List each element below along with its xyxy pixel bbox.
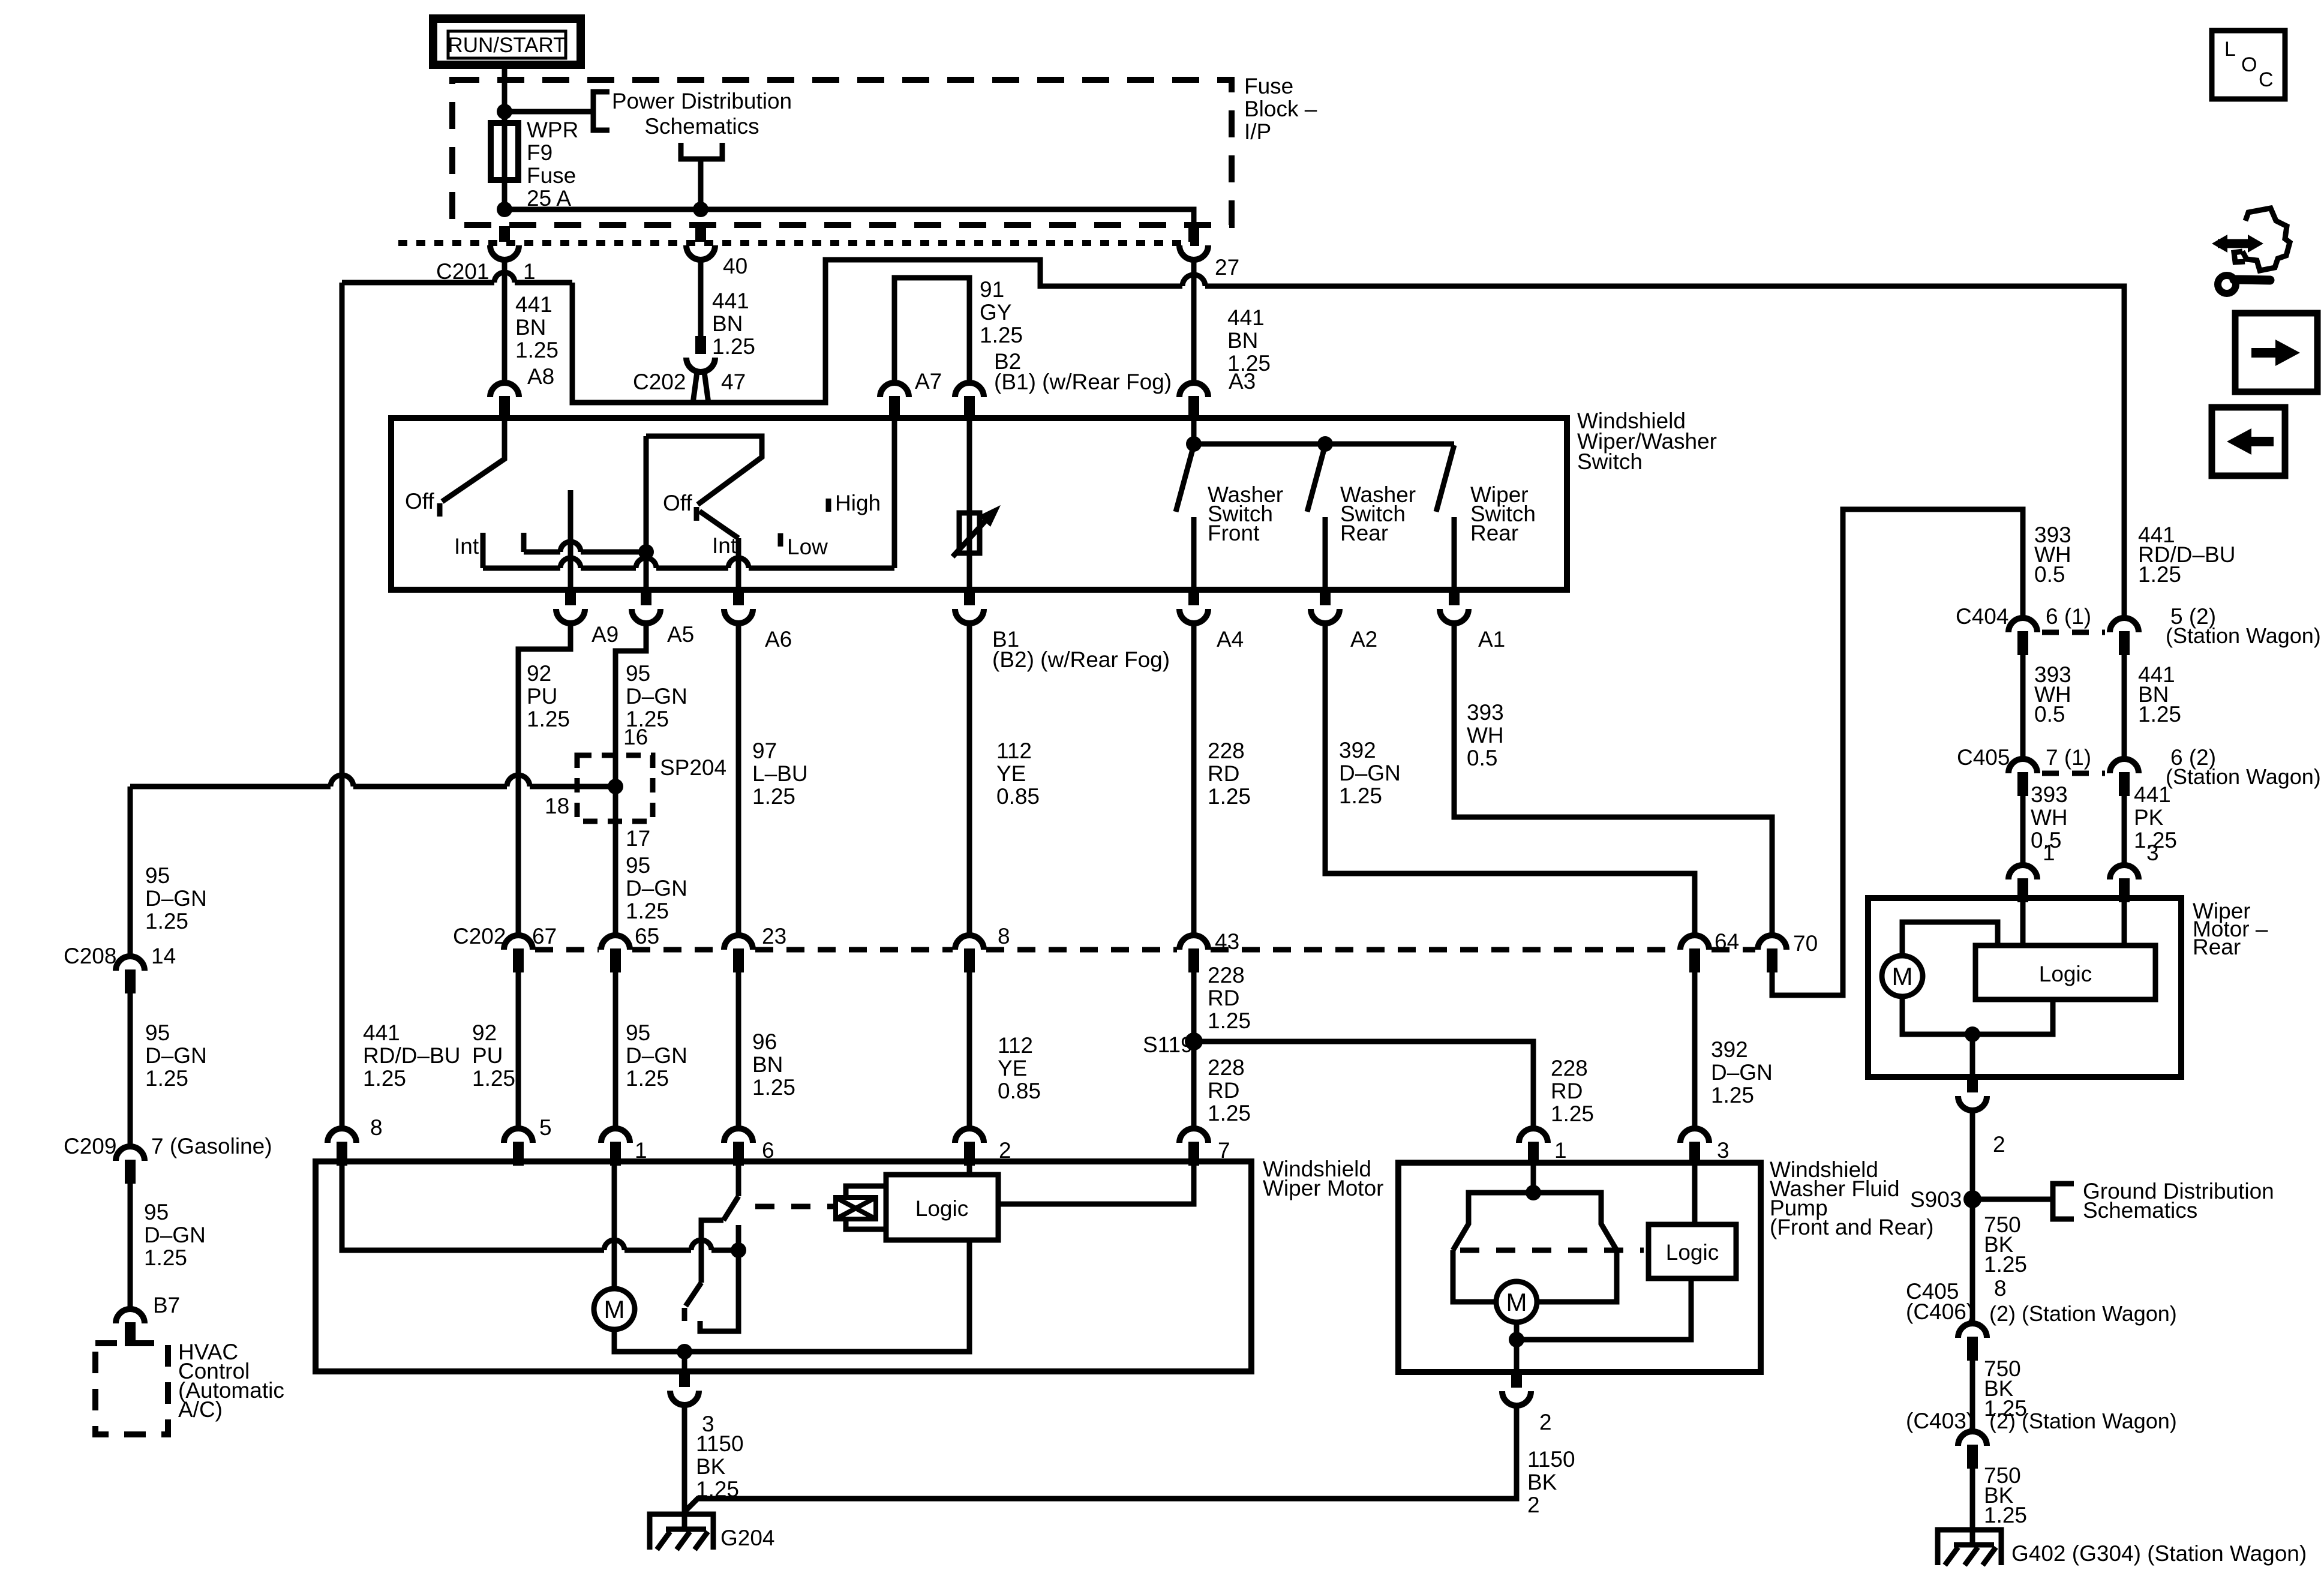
wire pin 1 to motor M [612,1164,617,1289]
wire 441 rail upper (hops over pin1 wire) [342,280,572,286]
wire 441 BN from pin 40 to C202-47 [698,260,704,336]
switch 2 High contact [826,499,831,512]
connector A8 [490,383,519,420]
svg-text:Logic: Logic [1666,1240,1719,1265]
motor M (pump) [1496,1281,1537,1322]
svg-text:3: 3 [1717,1138,1730,1163]
wire pin 8 to internal bus (hops pin1 and park wires) [342,1164,738,1250]
svg-text:393: 393 [2031,782,2068,807]
svg-text:1.25: 1.25 [752,784,795,809]
junction SP204 [608,779,623,794]
svg-text:A5: A5 [667,622,694,647]
label 441 BN 1.25 (pin 1) [515,292,559,362]
svg-text:Logic: Logic [915,1196,968,1221]
wire line B Int bus to A7 leg (hops A9,A5,A6 wires) [483,566,894,571]
wire to Power Distribution bracket [505,109,593,115]
wire rear M top to logic [1902,922,1998,956]
svg-text:70: 70 [1793,931,1818,956]
svg-text:40: 40 [723,254,747,278]
svg-text:D–GN: D–GN [626,1043,687,1068]
svg-text:(Station Wagon): (Station Wagon) [2166,623,2321,648]
svg-text:7 (1): 7 (1) [2046,745,2091,770]
wire 393 WH from C202-70 to C404 [1772,509,2023,995]
svg-text:C404: C404 [1956,604,2008,629]
connector A9 [556,590,585,623]
connector motor pin 3 [670,1371,699,1405]
label Fuse Block - I/P [1244,74,1317,144]
wire pump pin 2 drop [1514,1340,1520,1372]
svg-text:228: 228 [1208,1055,1245,1080]
pump switch left arm [1453,1193,1533,1302]
park switch blade upper [723,1196,738,1220]
svg-text:2: 2 [1993,1132,2005,1157]
wire hop bus over park contact wire [691,1240,711,1250]
washer switch rear blade [1307,445,1325,512]
svg-text:A7: A7 [915,369,942,394]
splice S903 [1963,1190,1981,1208]
svg-text:Off: Off [405,489,434,514]
connector C209 pin 7 [116,1146,145,1184]
wire M bottom to logic bottom [614,1240,969,1352]
wire pin 3 drop [682,1352,687,1371]
svg-text:95: 95 [145,863,170,888]
wire 228 RD branch S119 to pump pin 1 [1194,1041,1533,1128]
wire 1150 BK pump to G204 [685,1406,1517,1511]
svg-text:C202: C202 [633,370,686,394]
wire rear M bottom to logic bottom [1902,996,2053,1034]
svg-text:D–GN: D–GN [626,876,687,900]
motor M (front) [594,1289,635,1329]
wire 750 BK C403 to G402 [1970,1469,1975,1530]
connector B7 [116,1309,145,1346]
svg-text:1.25: 1.25 [144,1245,187,1270]
switch 2 left leg (A5) [644,436,649,590]
svg-text:1.25: 1.25 [1551,1101,1594,1126]
svg-text:1.25: 1.25 [1208,784,1251,809]
svg-text:1.25: 1.25 [145,1066,188,1091]
svg-text:8: 8 [998,924,1010,948]
svg-text:1150: 1150 [1527,1447,1575,1472]
svg-text:C208: C208 [64,944,116,968]
svg-text:Rear: Rear [1340,521,1388,545]
logic box (front motor) [886,1175,998,1240]
wire 393 WH from A1 to C202-70 [1454,623,1772,935]
junction below fuse [497,202,512,217]
connector A6 [724,590,753,623]
svg-text:A2: A2 [1350,627,1377,652]
svg-text:PU: PU [472,1043,503,1068]
switch 2 Low contact [778,533,783,547]
svg-text:8: 8 [1994,1276,2007,1301]
wire 228 RD below C202-43 with splice S119 [1191,972,1197,1128]
svg-text:16: 16 [623,725,648,749]
svg-text:PU: PU [527,684,557,709]
connector A3 [1179,383,1208,420]
wire 95 D-GN C208 to C209 [128,993,133,1146]
connector B2 [955,383,984,420]
junction washer switch rear [1317,436,1333,452]
connector motor pin 1 [601,1128,630,1166]
wire pump pin 3 to logic top [1692,1164,1698,1224]
windshield wiper motor box [316,1161,1251,1371]
svg-text:1: 1 [1554,1138,1567,1163]
svg-text:1.25: 1.25 [2138,562,2181,587]
connector C202 pin 23 [724,935,753,972]
wire S903 to ground distribution bracket [1972,1197,2053,1202]
svg-text:C209: C209 [64,1134,116,1158]
switch 1 Int contact [481,533,486,568]
svg-text:Off: Off [663,491,692,515]
windshield washer fluid pump box [1398,1163,1761,1372]
variable resistor (delay) [953,505,1001,557]
wire 112 YE from B1 to C202-8 [967,623,972,935]
svg-text:D–GN: D–GN [145,886,207,911]
svg-text:B7: B7 [153,1293,180,1317]
svg-text:WH: WH [2031,805,2068,830]
park switch rest stub [736,1225,741,1250]
label 441 BN 1.25 (pin 40) [712,289,755,359]
svg-text:YE: YE [996,761,1026,786]
reference bracket Power Distribution [593,92,609,130]
svg-text:392: 392 [1339,738,1376,763]
relay coil box [836,1197,876,1219]
junction pin 40 tap [693,202,708,217]
svg-text:M: M [1506,1288,1527,1316]
wiper switch rear blade [1436,445,1454,512]
wire SP204 pin 18 branch to left (hops 441 and 92 wires) [130,784,615,789]
connector C201 pin 40 [686,226,715,260]
svg-text:441: 441 [1227,305,1265,330]
svg-text:G402 (G304) (Station Wagon): G402 (G304) (Station Wagon) [2011,1541,2307,1566]
svg-text:1150: 1150 [696,1431,744,1456]
fuse F9 WPR 25A [491,112,578,211]
wire pin 7 to logic right [998,1164,1194,1204]
connector pump pin 2 [1502,1372,1531,1406]
svg-text:D–GN: D–GN [1711,1060,1773,1085]
svg-text:BN: BN [752,1052,783,1077]
wire pump M bottom to logic bottom [1517,1278,1691,1340]
connector A1 [1440,590,1469,623]
svg-text:A6: A6 [765,627,792,652]
connector C202 pin 8 [955,935,984,972]
node RUN/START [433,19,581,65]
icon arrow left box [2212,407,2285,476]
svg-text:1.25: 1.25 [363,1066,406,1091]
connector C405 pin 7 (1) [2008,759,2037,796]
svg-text:1.25: 1.25 [145,909,188,933]
svg-text:(Station Wagon): (Station Wagon) [2166,764,2321,789]
svg-text:5: 5 [539,1115,552,1140]
washer switch front contact (A4) [1191,517,1197,590]
svg-text:Logic: Logic [2039,962,2092,986]
wire 441 BN right branch to rear wiper feed [572,260,2124,618]
icon arrow right box [2235,313,2317,392]
svg-text:2: 2 [1527,1493,1540,1517]
connector C404 pin 6 (1) [2008,618,2037,655]
svg-text:23: 23 [762,924,786,948]
wire 441 RD/D-BU long left vertical to motor pin 8 [340,283,345,1128]
wire 750 BK S903 to C405 [1970,1199,1975,1323]
svg-text:(C403): (C403) [1906,1409,1974,1433]
connector motor pin 6 [724,1128,753,1166]
wire hop bus over pin 1 wire [604,1240,624,1250]
svg-text:228: 228 [1208,739,1245,763]
svg-text:C: C [2259,68,2274,91]
coil to logic bracket [846,1186,886,1229]
connector row C404 [2042,630,2105,635]
svg-text:1.25: 1.25 [515,338,559,362]
svg-text:A9: A9 [591,622,618,647]
svg-text:M: M [604,1295,625,1323]
wire 441 BN from pin 27 down to A3 [1191,260,1197,383]
park switch lower blade [686,1283,701,1306]
svg-text:18: 18 [545,794,569,818]
svg-text:S903: S903 [1910,1187,1962,1212]
svg-text:228: 228 [1551,1056,1588,1080]
connector row C405 [2042,771,2105,776]
junction line A / A5 leg [638,544,654,560]
wire fuse output bus to pin 27 [505,209,1194,226]
svg-text:393: 393 [1467,700,1504,725]
wire hop line B over A9 wire [560,558,581,568]
connector C201 pin 27 [1179,226,1208,260]
wire 1150 BK to G204 [682,1405,687,1532]
connector C202 pin 64 [1680,935,1709,972]
svg-text:3: 3 [2146,840,2159,865]
svg-text:95: 95 [626,661,650,686]
svg-text:Fuse: Fuse [527,163,576,188]
svg-text:1.25: 1.25 [1208,1008,1251,1033]
svg-text:C202: C202 [453,924,506,948]
connector rear motor pin 1 [2008,865,2037,902]
wire 92 PU from A9 to C202-67 [518,623,571,935]
svg-text:1.25: 1.25 [1208,1101,1251,1125]
svg-text:WH: WH [1467,723,1504,748]
svg-text:Rear: Rear [2193,935,2241,959]
svg-text:D–GN: D–GN [145,1043,207,1068]
wire hop over 92 PU wire [507,775,530,786]
svg-text:A4: A4 [1217,627,1244,652]
connector C202 pin 65 [601,935,630,972]
svg-text:0.85: 0.85 [996,784,1040,809]
svg-text:Front: Front [1208,521,1260,545]
junction rear motor ground tap [1965,1026,1980,1042]
svg-text:RD/D–BU: RD/D–BU [363,1043,460,1068]
switch 1 wiper Off/Int blade from A8 [442,420,505,502]
windshield wiper/washer switch box [391,418,1567,590]
svg-text:High: High [835,491,881,515]
wire 95 D-GN below C202 to motor pin 1 [613,972,618,1128]
wire 97 L-BU from A6 to C202-23 [736,623,741,935]
wire 441 BN from pin 1 down to A8 [502,260,508,383]
svg-text:67: 67 [532,924,557,948]
ground G204 [650,1510,713,1550]
wire hop line A over A9 wire [560,542,581,552]
variable resistor wire B2-B1 [967,420,972,590]
svg-text:1.25: 1.25 [527,707,570,731]
wire rear motor pin 2 drop [1970,1034,1975,1077]
junction bus / 96 BN [731,1242,746,1258]
svg-text:0.5: 0.5 [1467,746,1497,770]
svg-text:A8: A8 [527,364,554,389]
wire 392 D-GN from A2 to C202-64 [1325,623,1695,935]
label Power Distribution Schematics [612,89,792,139]
wire hop line B over A6 wire [728,558,749,568]
svg-text:S119: S119 [1143,1032,1193,1057]
junction above fuse [497,104,512,119]
wire 92 PU below C202 to motor pin 5 [516,972,521,1128]
svg-text:Int: Int [712,533,737,558]
svg-text:7 (Gasoline): 7 (Gasoline) [151,1134,272,1158]
svg-text:SP204: SP204 [660,755,726,780]
wire 441 PK C405 to rear motor pin 3 [2122,796,2127,865]
connector motor pin 8 [328,1128,356,1166]
connector C201 pin 1 [490,226,519,260]
svg-text:Wiper Motor: Wiper Motor [1263,1176,1383,1200]
svg-text:Low: Low [787,535,828,559]
svg-text:BN: BN [1227,328,1258,353]
wire 392 D-GN below C202-64 to pump pin 3 [1692,972,1698,1128]
svg-text:1.25: 1.25 [2138,702,2181,727]
wire A7 leg inside box [892,420,897,568]
connector rear motor pin 2 [1958,1077,1987,1110]
svg-text:YE: YE [998,1056,1027,1080]
connector C405 pin 6 (2) [2110,759,2139,796]
svg-text:(B1) (w/Rear Fog): (B1) (w/Rear Fog) [994,370,1172,394]
switch 2 wiper Off/Int/Low/High [646,436,762,505]
park switch lower contact tick [682,1308,687,1321]
svg-text:441: 441 [363,1020,400,1045]
switch 2 Off contact [694,507,699,521]
splice S119 [1185,1032,1203,1050]
connector motor pin 7 [1179,1128,1208,1166]
wire 228 RD from A4 to C202-43 [1191,623,1197,935]
svg-text:92: 92 [527,661,551,686]
connector row C201 dotted line [398,240,1200,246]
junction pump bail [1526,1185,1541,1200]
connector A4 [1179,590,1208,623]
svg-text:GY: GY [980,300,1011,325]
svg-text:1.25: 1.25 [752,1075,795,1100]
svg-text:1.25: 1.25 [1339,784,1382,808]
svg-text:RD: RD [1208,986,1239,1010]
svg-text:WPR: WPR [527,118,578,142]
wiper switch rear contact (A1) [1452,517,1457,590]
svg-text:43: 43 [1215,929,1239,954]
svg-text:441: 441 [2134,782,2171,807]
svg-text:M: M [1892,962,1913,990]
mechanical linkage dashes [755,1204,834,1209]
connector A7 [880,383,909,420]
switch 2 blade curve to Int [699,511,738,538]
wire 95 D-GN left branch down to C208 [128,786,133,956]
svg-text:65: 65 [635,924,659,948]
connector B1 [955,590,984,623]
svg-text:97: 97 [752,739,777,763]
svg-text:91: 91 [980,277,1004,302]
wire hop line B over A5 wire [636,558,656,568]
svg-text:Block –: Block – [1244,97,1317,121]
svg-text:1.25: 1.25 [712,334,755,359]
label Windshield Wiper/Washer Switch [1577,409,1717,474]
svg-text:RUN/START: RUN/START [448,34,566,57]
wire 95 D-GN from A5 through SP204 to C202-65 [615,623,646,935]
svg-text:1.25: 1.25 [1984,1503,2027,1527]
svg-text:95: 95 [626,1020,650,1045]
park switch wire from pin 6 [736,1164,741,1196]
svg-text:(Front and Rear): (Front and Rear) [1770,1215,1934,1239]
svg-text:RD: RD [1208,1078,1239,1103]
svg-text:RD: RD [1551,1079,1583,1103]
svg-text:95: 95 [145,1020,170,1045]
connector C202 pin 70 [1758,935,1786,972]
svg-text:F9: F9 [527,140,553,165]
svg-text:Power Distribution: Power Distribution [612,89,792,113]
svg-text:441: 441 [712,289,749,313]
wiper motor rear box [1868,898,2181,1077]
svg-text:C405: C405 [1957,745,2010,770]
svg-text:2: 2 [1539,1410,1552,1434]
svg-text:92: 92 [472,1020,497,1045]
park switch bottom bracket [700,1250,738,1331]
svg-text:14: 14 [151,944,176,968]
wires rear motor pins into logic [2023,902,2124,945]
svg-text:1.25: 1.25 [626,899,669,923]
wire hop over pin 1 wire [494,272,515,283]
motor M (rear) [1882,956,1923,996]
connector C202 pin 67 [504,935,533,972]
connector A5 [632,590,660,623]
logic box (rear motor) [1975,945,2155,999]
connector C405 (C406) pin 8 [1958,1323,1987,1361]
svg-text:392: 392 [1711,1037,1748,1062]
switch 1 second contact to line A [521,533,527,552]
washer/wiper switch feed from A3 [1194,420,1454,444]
svg-text:G204: G204 [720,1526,775,1550]
svg-text:Rear: Rear [1470,521,1518,545]
svg-text:O: O [2241,53,2257,76]
svg-text:L–BU: L–BU [752,761,808,786]
hop over pin 27 wire [1182,275,1205,286]
wire 96 BN below C202 to motor pin 6 [736,972,741,1128]
HVAC Control dashed box [95,1343,168,1434]
wire 95 D-GN C209 to B7 [128,1184,133,1309]
washer switch rear contact (A2) [1323,517,1328,590]
svg-text:0.5: 0.5 [2034,702,2065,727]
svg-text:BK: BK [696,1454,726,1479]
washer switch front blade [1176,445,1194,512]
svg-text:27: 27 [1215,255,1239,280]
junction washer switch front [1186,436,1202,452]
wire from RUN/START into fuse block [502,65,508,112]
connector C202 pin 47 (ring terminal) [686,336,715,403]
wire 393 WH C405 to rear motor pin 1 [2020,796,2026,865]
svg-text:0.85: 0.85 [998,1079,1041,1103]
svg-text:112: 112 [996,739,1032,763]
svg-text:1.25: 1.25 [1984,1252,2027,1277]
svg-text:47: 47 [721,370,746,394]
svg-text:Schematics: Schematics [644,114,759,139]
svg-text:PK: PK [2134,805,2164,830]
label 441 RD/D-BU 1.25 (left vertical) [363,1020,460,1140]
pump switch right arm [1533,1193,1617,1302]
fuse block dashed border [452,80,1232,225]
svg-text:0.5: 0.5 [2034,562,2065,587]
svg-text:BN: BN [712,311,743,336]
svg-text:Int: Int [454,534,479,559]
junction pin 3 tap [677,1344,692,1359]
svg-text:95: 95 [144,1200,169,1224]
